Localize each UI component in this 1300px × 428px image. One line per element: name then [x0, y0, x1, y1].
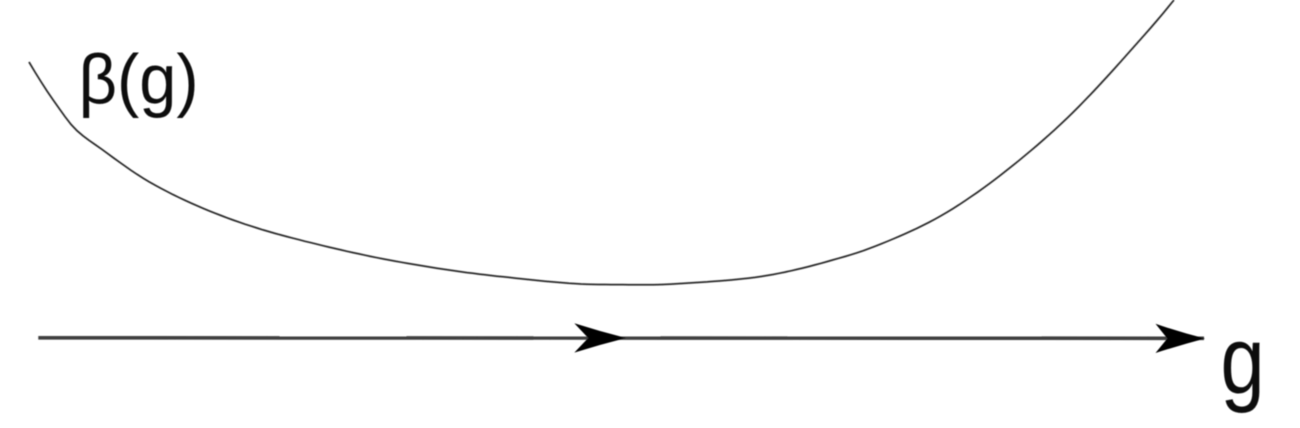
svg-text:β(g): β(g) [79, 40, 199, 119]
svg-text:g: g [1221, 306, 1265, 414]
